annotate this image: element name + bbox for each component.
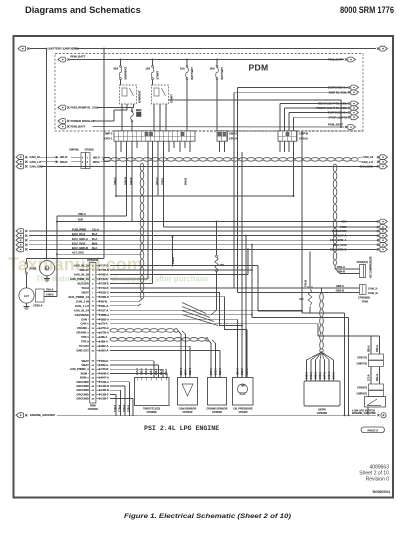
svg-text:BUZZER: BUZZER: [77, 281, 88, 285]
svg-text:B4B-C: B4B-C: [101, 371, 109, 375]
relay K1 ignition relay: [120, 80, 122, 86]
node PDM_BATT upper left connector: [58, 57, 66, 62]
svg-text:632-3: 632-3: [155, 368, 158, 375]
svg-text:ECU_GRD-B: ECU_GRD-B: [72, 246, 88, 250]
svg-text:38Z-A: 38Z-A: [101, 344, 109, 348]
svg-text:PDM: PDM: [249, 62, 269, 72]
svg-text:VBAT: VBAT: [81, 290, 89, 294]
svg-text:PAGE 3: PAGE 3: [367, 428, 378, 432]
svg-text:94G-A: 94G-A: [328, 372, 331, 379]
svg-text:3BI-A: 3BI-A: [101, 340, 108, 344]
svg-text:CRANK +: CRANK +: [76, 331, 89, 335]
svg-text:MB2: MB2: [136, 108, 142, 112]
svg-text:349-A: 349-A: [101, 272, 108, 276]
svg-text:633-3: 633-3: [150, 368, 153, 375]
twisted pair CRANK to crank sensor: [110, 338, 208, 342]
wire PDM_BATT lower bus: [93, 126, 345, 129]
wire right elbow x252: [252, 317, 349, 319]
svg-text:38Z-A: 38Z-A: [376, 345, 379, 352]
svg-text:RELAY: RELAY: [80, 268, 89, 272]
wire 78B-A: [57, 215, 127, 217]
twisted pair vertical right CAN branch: [333, 164, 337, 265]
PDM dashed bottom joining strips: [195, 130, 217, 132]
fuse alternator FUSE: [26, 259, 28, 263]
svg-text:74B-D: 74B-D: [113, 177, 117, 185]
ECM row wires right group A: [110, 265, 258, 267]
wire battery drop x46.5: [46, 49, 48, 259]
svg-text:743-B: 743-B: [101, 367, 108, 371]
node ENGINE_GROUND left connector: [16, 413, 24, 418]
svg-text:13B-T: 13B-T: [101, 397, 109, 401]
svg-text:AUX_IN_14: AUX_IN_14: [74, 308, 89, 312]
svg-text:3BZ-3: 3BZ-3: [219, 368, 222, 375]
svg-text:94D-A: 94D-A: [315, 372, 318, 379]
svg-text:13B-3: 13B-3: [127, 404, 131, 412]
DEPR fan-out wires: [307, 352, 322, 381]
wire relay K2 output right: [169, 100, 342, 127]
svg-text:BATTERY: BATTERY: [190, 67, 194, 80]
svg-text:CPS7(T): CPS7(T): [357, 356, 367, 360]
svg-text:IGN/VBAT: IGN/VBAT: [138, 90, 142, 103]
svg-text:PDM_BATT: PDM_BATT: [328, 122, 343, 126]
connector strip CMP-2/CPS-2: [217, 131, 228, 141]
bus FUEL/PWR: [16, 229, 24, 234]
resistor 120 ohm right: [307, 287, 312, 288]
wire CAN_LO to connector: [40, 161, 53, 163]
svg-text:27B-A: 27B-A: [101, 331, 109, 335]
svg-text:CPS20D: CPS20D: [88, 407, 98, 411]
svg-text:931-A: 931-A: [101, 304, 108, 308]
svg-text:CAN_HI: CAN_HI: [363, 155, 374, 159]
svg-text:120: 120: [299, 297, 304, 301]
wire fuse F3 to strip: [186, 80, 188, 131]
svg-text:12B-3: 12B-3: [113, 404, 117, 412]
svg-text:74Z-B: 74Z-B: [101, 286, 109, 290]
svg-text:961-F: 961-F: [93, 155, 100, 159]
fuse F2 15A: [152, 59, 154, 61]
svg-text:GROUND: GROUND: [76, 397, 88, 401]
svg-text:78A-A: 78A-A: [46, 288, 54, 292]
wire row k6 to oil pressure: [110, 292, 242, 325]
svg-text:FUSE: FUSE: [30, 267, 37, 271]
svg-text:OIL PRESSURE: OIL PRESSURE: [233, 407, 252, 411]
svg-text:ENGINE_GROUND: ENGINE_GROUND: [352, 411, 376, 415]
svg-text:ENGINE_GROUND: ENGINE_GROUND: [30, 413, 55, 417]
relay K2 starter relay: [152, 80, 154, 86]
node POWER WAKE-UP connector: [58, 119, 66, 124]
svg-text:CMP-1: CMP-1: [104, 132, 113, 136]
wire CAN_1 pair to braid: [110, 299, 142, 301]
wire ALT_EXC: [57, 253, 142, 255]
svg-text:TACH: TACH: [81, 286, 89, 290]
svg-text:30A: 30A: [113, 67, 118, 71]
svg-text:632-A: 632-A: [101, 363, 108, 367]
svg-text:PSI 2.4L LPG ENGINE: PSI 2.4L LPG ENGINE: [144, 425, 219, 432]
svg-text:FUEL/PWR: FUEL/PWR: [332, 229, 347, 233]
ECM group B wires to throttle: [110, 360, 154, 362]
svg-text:CMP-2: CMP-2: [229, 132, 238, 136]
svg-text:27I-3: 27I-3: [185, 369, 188, 375]
svg-text:94H-A: 94H-A: [333, 372, 336, 379]
svg-text:CPS-2: CPS-2: [229, 137, 238, 141]
svg-text:3BS-A: 3BS-A: [101, 317, 109, 321]
svg-text:3BB-3: 3BB-3: [189, 367, 192, 375]
svg-text:741-B: 741-B: [304, 280, 308, 287]
wire y196 horizontal: [116, 195, 294, 197]
low lpg switch: [365, 397, 386, 408]
svg-text:5V EXT: 5V EXT: [79, 344, 89, 348]
svg-text:PDM_BATT: PDM_BATT: [71, 54, 86, 58]
svg-text:38V-A: 38V-A: [101, 349, 109, 353]
svg-text:94B-A: 94B-A: [306, 372, 309, 379]
svg-text:78B-D: 78B-D: [101, 295, 109, 299]
svg-text:81-A: 81-A: [92, 238, 98, 241]
svg-text:74D-3: 74D-3: [141, 368, 144, 375]
svg-text:START: START: [156, 70, 160, 79]
svg-text:90B-C: 90B-C: [336, 284, 344, 288]
svg-text:CAN_SHD: CAN_SHD: [359, 164, 373, 168]
wire x302 vertical: [301, 131, 303, 313]
node FUEL/PUMP RL COIL connector: [58, 105, 66, 110]
svg-text:94F-A: 94F-A: [324, 372, 327, 379]
svg-text:75E-D: 75E-D: [161, 178, 165, 185]
svg-text:ECU_5V-B: ECU_5V-B: [333, 243, 347, 247]
svg-text:POWER WAKE-UP: POWER WAKE-UP: [71, 119, 96, 123]
wire CAN_HI to connector: [40, 156, 53, 158]
svg-text:CAN_HI: CAN_HI: [30, 155, 41, 159]
wire k0 staircase to DEPR region: [257, 266, 259, 312]
wire row 19 to crank third pin: [110, 350, 220, 352]
svg-text:CAN_LO: CAN_LO: [362, 160, 374, 164]
svg-text:ALT: ALT: [24, 294, 29, 298]
bus ECU_GRD-A: [16, 238, 24, 243]
svg-text:CPS6(T): CPS6(T): [357, 386, 367, 390]
wire cps7 feed horizontal: [318, 335, 380, 337]
wire IGN bus: [57, 221, 378, 223]
svg-text:27D-A: 27D-A: [101, 326, 109, 330]
cam sensor wires: [180, 334, 182, 378]
svg-text:ECU_5V-A: ECU_5V-A: [333, 234, 347, 238]
svg-text:AUX_IN_18: AUX_IN_18: [74, 272, 89, 276]
node PDM right connector: [377, 226, 379, 228]
svg-text:15A: 15A: [180, 67, 185, 71]
svg-text:14B-D: 14B-D: [46, 293, 54, 297]
svg-text:12B-A: 12B-A: [101, 380, 109, 384]
svg-text:CPS-1: CPS-1: [104, 137, 113, 141]
svg-text:11B-2: 11B-2: [171, 257, 175, 264]
svg-text:CPS20B: CPS20B: [87, 258, 98, 262]
svg-text:DEPR: DEPR: [318, 408, 326, 412]
wire pins below strip2: [219, 141, 221, 152]
svg-text:BATTERY (UNFUSED): BATTERY (UNFUSED): [49, 47, 79, 51]
svg-text:11T-A: 11T-A: [368, 374, 371, 381]
bus ECU_GRD-B: [16, 247, 24, 252]
svg-text:74I-B: 74I-B: [101, 277, 108, 281]
svg-text:CAN_1 HI: CAN_1 HI: [76, 299, 89, 303]
fuse F1 30A: [120, 59, 122, 61]
wire PDM_BATT bus: [70, 59, 345, 61]
svg-text:CMP6(T): CMP6(T): [357, 392, 368, 396]
svg-text:94C-A: 94C-A: [310, 372, 313, 379]
svg-text:CAN_2-: CAN_2-: [368, 286, 378, 290]
svg-text:90B-B: 90B-B: [337, 270, 345, 274]
svg-text:71R-B: 71R-B: [101, 268, 109, 272]
svg-text:24B-W: 24B-W: [124, 176, 128, 185]
svg-text:CAN -: CAN -: [81, 317, 89, 321]
fuse F3 15A: [186, 59, 188, 61]
svg-text:CPS21R: CPS21R: [182, 410, 192, 414]
svg-text:94X-B: 94X-B: [184, 178, 188, 185]
svg-text:960-F: 960-F: [93, 160, 100, 164]
bus ECU_5V-A: [16, 233, 24, 238]
twisted pair vertical to ECM: [140, 163, 144, 299]
svg-text:3B-A: 3B-A: [101, 335, 107, 339]
strip darker pins: [145, 132, 148, 136]
wire right staircase x302: [302, 312, 345, 314]
wire CAN2 lines: [234, 287, 360, 289]
svg-text:IGN: IGN: [342, 220, 347, 224]
svg-text:15A: 15A: [145, 67, 150, 71]
oil pressure box: [233, 378, 254, 406]
wire CAN_SHD straight across: [40, 165, 378, 167]
svg-text:GND EXT: GND EXT: [76, 349, 89, 353]
svg-text:13B-B: 13B-B: [101, 388, 109, 392]
svg-text:PDM_BATT: PDM_BATT: [328, 57, 343, 61]
svg-text:D33-C: D33-C: [101, 290, 109, 294]
throttle box CPS25B: [135, 378, 170, 406]
node CAN_HI left connector: [16, 155, 24, 160]
svg-text:DB1-A: DB1-A: [337, 265, 345, 269]
svg-text:38B-3: 38B-3: [241, 368, 244, 375]
svg-text:CAN_1 LO: CAN_1 LO: [75, 304, 90, 308]
wire y258 horizontal: [27, 258, 105, 260]
wire row 13 to cps7 column: [110, 323, 318, 325]
svg-text:12B-B: 12B-B: [101, 384, 109, 388]
svg-text:TPS 1: TPS 1: [81, 335, 89, 339]
wire PDM bus: [164, 226, 379, 228]
alternator ALT circle: [19, 288, 34, 303]
svg-text:CAN_2+: CAN_2+: [368, 291, 379, 295]
twisted pair CAN bus horizontal: [103, 158, 358, 162]
svg-text:DB1-B: DB1-B: [336, 289, 344, 293]
svg-text:ECU_5V-A: ECU_5V-A: [72, 232, 85, 236]
page reference bubble: [361, 427, 385, 433]
svg-text:80-B: 80-B: [92, 242, 98, 245]
wire battery drop x104: [103, 48, 105, 50]
drawing frame: [14, 36, 394, 498]
svg-text:71L-A: 71L-A: [92, 229, 99, 232]
svg-text:3B4-3: 3B4-3: [237, 368, 240, 375]
svg-text:PDM: PDM: [362, 300, 368, 304]
svg-text:CPS16L: CPS16L: [85, 148, 95, 152]
svg-text:Revision 0: Revision 0: [366, 477, 390, 483]
svg-text:THROTTLE(T): THROTTLE(T): [143, 407, 160, 411]
svg-text:38V-3: 38V-3: [246, 368, 249, 375]
wire engine ground bus: [57, 414, 376, 416]
svg-text:633-D: 633-D: [101, 359, 108, 363]
svg-text:WS: WS: [241, 386, 245, 388]
fuse MB2: [131, 108, 133, 111]
svg-text:ALT: ALT: [45, 267, 50, 270]
svg-text:CPS25B: CPS25B: [146, 410, 156, 414]
svg-text:27I-A: 27I-A: [101, 322, 108, 326]
svg-text:81-C: 81-C: [92, 247, 98, 250]
svg-text:94E-A: 94E-A: [319, 372, 322, 379]
twisted pair CAN to cam sensor: [110, 329, 178, 333]
wire row 12 to oil pressure: [110, 318, 238, 320]
wire strip pins down group: [115, 141, 117, 196]
svg-text:27D-3: 27D-3: [210, 368, 213, 375]
svg-text:30A: 30A: [210, 67, 215, 71]
wire bundle diagonal group: [182, 303, 206, 314]
svg-text:Figure 1. Electrical Schematic: Figure 1. Electrical Schematic (Sheet 2 …: [124, 513, 292, 520]
wire rows 10-11 right: [110, 309, 302, 311]
ECM ground wires to ground bus: [110, 381, 130, 383]
svg-text:24B-B: 24B-B: [129, 177, 133, 185]
svg-text:12B-4: 12B-4: [118, 404, 122, 412]
svg-text:CMP7(T): CMP7(T): [357, 362, 368, 366]
ECM last ground row wire: [110, 398, 133, 400]
svg-text:71A-3: 71A-3: [136, 368, 139, 375]
svg-text:CPS22(T): CPS22(T): [357, 260, 369, 264]
crank sensor box: [208, 378, 227, 406]
node BATTERY UNFUSED left connector: [18, 46, 26, 51]
alternator brush box: [36, 289, 45, 302]
svg-text:78B-A: 78B-A: [78, 212, 86, 216]
svg-text:3B-3: 3B-3: [160, 369, 163, 375]
cam sensor box: [178, 378, 198, 406]
svg-text:CMP16L: CMP16L: [69, 148, 80, 152]
wire vertical x57: [56, 216, 58, 297]
svg-text:CPS20I: CPS20I: [239, 410, 248, 414]
svg-text:80-A: 80-A: [92, 233, 98, 236]
wire drop 11B-2: [172, 236, 174, 238]
svg-text:ECU_5V-B: ECU_5V-B: [72, 241, 85, 245]
svg-text:AUX_PWM2_14: AUX_PWM2_14: [68, 295, 89, 299]
svg-text:13B-4: 13B-4: [122, 404, 126, 412]
svg-text:IGN/VBAT: IGN/VBAT: [124, 67, 128, 80]
node BATTERY UNFUSED right connector: [377, 48, 379, 50]
fuse F4 30A: [216, 59, 218, 61]
twisted pair vertical to DEPR: [321, 288, 323, 293]
svg-text:3BS-3: 3BS-3: [180, 367, 183, 375]
resistor 120 ohm mid: [216, 221, 218, 223]
svg-text:120: 120: [220, 263, 225, 267]
svg-text:3B1-A: 3B1-A: [376, 374, 379, 381]
connector CAN_2 CPS2: [360, 285, 367, 295]
svg-text:TPS 2: TPS 2: [81, 340, 89, 344]
svg-text:CMP-B: CMP-B: [299, 132, 308, 136]
ground below exciter circle: [44, 278, 50, 280]
svg-text:CAN_LO: CAN_LO: [30, 160, 42, 164]
bus ECU_5V-B: [16, 242, 24, 247]
svg-text:9V-B: 9V-B: [101, 299, 107, 303]
svg-text:960-B: 960-B: [60, 160, 67, 164]
svg-text:FUEL/PUMP RL COIL: FUEL/PUMP RL COIL: [71, 106, 99, 110]
node CAN_SHD left connector: [16, 164, 24, 169]
svg-text:72B-E: 72B-E: [101, 281, 109, 285]
svg-text:IGN: IGN: [78, 218, 83, 222]
svg-text:74C-3: 74C-3: [145, 368, 148, 375]
connector strip CMP-B/CPS-B: [278, 131, 297, 141]
svg-text:CRANK SENSOR: CRANK SENSOR: [207, 407, 228, 411]
alternator exciter circle: [39, 260, 54, 275]
svg-text:OILPRESS: OILPRESS: [75, 313, 89, 317]
svg-text:31T-A: 31T-A: [101, 308, 108, 312]
svg-text:CPS26R: CPS26R: [317, 411, 328, 415]
svg-text:CAM SENSOR: CAM SENSOR: [179, 407, 197, 411]
DEPR box: [304, 381, 340, 406]
svg-text:13B-3: 13B-3: [101, 392, 109, 396]
svg-text:8000 SRM 1776: 8000 SRM 1776: [340, 5, 394, 15]
wire block B verticals down: [279, 141, 281, 152]
svg-text:ECU_GRD-A: ECU_GRD-A: [330, 238, 347, 242]
svg-text:FUEL/PWR: FUEL/PWR: [72, 228, 86, 232]
svg-text:ECU_GRD-B: ECU_GRD-B: [330, 247, 347, 251]
svg-text:START: START: [170, 94, 174, 103]
svg-text:B0080904: B0080904: [372, 490, 390, 494]
svg-text:Diagrams and Schematics: Diagrams and Schematics: [25, 5, 141, 15]
svg-text:CPS2(N2): CPS2(N2): [358, 296, 370, 300]
svg-text:A/C COMPRESSOR: A/C COMPRESSOR: [370, 256, 373, 278]
wire row 18 to cam third pin: [110, 345, 190, 347]
svg-text:ALT_EXC: ALT_EXC: [72, 251, 84, 255]
node CAN_LO left connector: [16, 159, 24, 164]
svg-text:71F-C: 71F-C: [101, 264, 109, 268]
svg-text:CPS2-A: CPS2-A: [33, 304, 43, 308]
svg-text:3BI-3: 3BI-3: [165, 368, 168, 375]
node PDM_BATT lower left connector: [58, 124, 66, 129]
svg-text:PDM_BATT: PDM_BATT: [71, 125, 86, 129]
svg-text:PDM: PDM: [90, 403, 96, 407]
wire battery unfused bus: [75, 48, 376, 50]
svg-text:BATTERY: BATTERY: [220, 67, 224, 80]
svg-text:AUX_IN_19: AUX_IN_19: [74, 264, 89, 268]
svg-text:961-B: 961-B: [60, 155, 67, 159]
svg-text:3BB-A: 3BB-A: [101, 313, 109, 317]
svg-text:74C-D: 74C-D: [155, 177, 159, 185]
svg-text:CAN +: CAN +: [80, 322, 89, 326]
PDM enclosure dashed box: [55, 54, 363, 132]
svg-text:B47-A: B47-A: [101, 376, 109, 380]
ground below alternator: [26, 303, 28, 306]
svg-text:CPS-B: CPS-B: [299, 137, 308, 141]
svg-text:27B-3: 27B-3: [215, 368, 218, 375]
wire row k7 to oil pressure: [110, 297, 247, 330]
svg-text:CPS22D: CPS22D: [212, 410, 222, 414]
wire fuse F4 to strip: [216, 80, 218, 131]
wire block A verticals down: [241, 152, 243, 378]
svg-text:ECU_GRD-A: ECU_GRD-A: [72, 237, 88, 241]
svg-text:AUX_PWM_15: AUX_PWM_15: [70, 277, 89, 281]
svg-text:CRANK -: CRANK -: [77, 326, 89, 330]
svg-text:3BI-A: 3BI-A: [368, 345, 371, 352]
